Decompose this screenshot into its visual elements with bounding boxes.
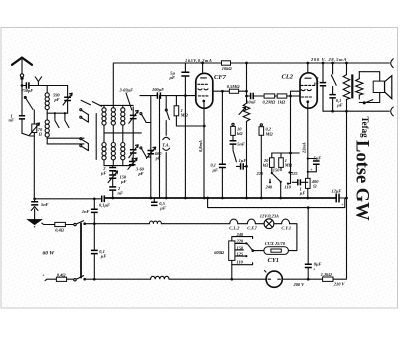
resistor 0.5M bbox=[227, 84, 247, 93]
svg-text:CY1: CY1 bbox=[268, 257, 280, 264]
svg-text:kΩ: kΩ bbox=[237, 131, 243, 136]
wire coil to filter lower bbox=[47, 143, 84, 145]
capacitor 0.1uF in rail bbox=[99, 196, 110, 208]
transformer core bbox=[351, 74, 353, 98]
svg-text:0,4Ω: 0,4Ω bbox=[55, 227, 64, 232]
switch mains bottom bbox=[74, 276, 86, 281]
svg-text:1,2kΩ: 1,2kΩ bbox=[321, 272, 333, 277]
node grid junction bbox=[184, 94, 187, 97]
capacitor 600pF variable bbox=[147, 147, 163, 161]
wire CL2 anode to bus bbox=[306, 62, 309, 72]
wire to CL2 grid bbox=[291, 91, 301, 96]
choke heater bbox=[149, 221, 229, 224]
tap 240 dropper bbox=[232, 232, 253, 241]
switch contacts left upper bbox=[80, 109, 89, 122]
capacitor 0.1uF mains bbox=[91, 249, 106, 281]
capacitor 1nF antenna bbox=[9, 114, 26, 134]
svg-text:nF: nF bbox=[118, 191, 123, 196]
svg-text:110: 110 bbox=[237, 260, 244, 265]
wire B+ top bus left bbox=[114, 62, 222, 64]
capacitor 10nF bbox=[246, 93, 264, 105]
resistor 1M grid leak bbox=[174, 96, 204, 126]
wire ground rail thin bbox=[35, 198, 101, 200]
svg-text:µF: µF bbox=[100, 254, 107, 259]
capacitor 5nF to ground bbox=[31, 199, 48, 207]
switch contact a bbox=[55, 113, 59, 127]
wire volume column bbox=[245, 62, 248, 104]
svg-text:1kΩ: 1kΩ bbox=[278, 100, 286, 105]
switch contacts left lower bbox=[80, 138, 89, 151]
svg-text:200 V: 200 V bbox=[293, 282, 306, 287]
svg-text:5nF: 5nF bbox=[237, 141, 245, 146]
switch link bar bbox=[80, 223, 82, 279]
node CL2 grid bbox=[289, 95, 292, 98]
svg-text:5nF: 5nF bbox=[41, 202, 49, 207]
tube CL2 bbox=[300, 73, 317, 108]
resistor 10k in bus bbox=[222, 61, 233, 71]
wire top coil box bbox=[47, 85, 67, 87]
capacitor 12uF bus bbox=[332, 188, 347, 207]
wire chassis bus thick bbox=[105, 197, 335, 199]
tap 220 dropper bbox=[235, 239, 248, 245]
svg-text:125: 125 bbox=[237, 252, 244, 257]
switch tone bbox=[233, 145, 236, 162]
switch tone right bbox=[331, 62, 336, 94]
svg-text:µF: µF bbox=[336, 103, 343, 108]
svg-text:CUX J5/70: CUX J5/70 bbox=[265, 241, 286, 246]
capacitor 5uF cathode bypass bbox=[307, 156, 322, 173]
svg-text:MΩ: MΩ bbox=[265, 131, 274, 136]
antenna lead-in loop bbox=[20, 74, 23, 86]
wire CF7 anode right bbox=[213, 90, 230, 92]
ground chassis symbol bbox=[27, 219, 42, 227]
svg-text:240: 240 bbox=[265, 184, 273, 189]
lamp dial 12V bbox=[260, 213, 282, 228]
capacitor 0.5uF below bus bbox=[151, 198, 166, 211]
node ground junction bbox=[33, 197, 36, 200]
switch mains selector blade bbox=[272, 173, 282, 198]
svg-text:8µF: 8µF bbox=[314, 261, 322, 266]
coil Fa1 bbox=[102, 105, 106, 132]
svg-text:CF7: CF7 bbox=[214, 74, 227, 81]
resistor 1k series bbox=[277, 94, 290, 105]
resistor 10k column bbox=[231, 123, 243, 136]
wire AVC vertical bbox=[150, 96, 152, 198]
wire dropper to mains bbox=[230, 265, 233, 281]
wire return rail bbox=[206, 197, 345, 209]
terminal hook lower bbox=[391, 107, 394, 116]
switch dropper blade bbox=[247, 243, 253, 250]
switch contacts top left bbox=[81, 100, 102, 106]
node antenna junction bbox=[21, 84, 24, 87]
capacitor 0.1uF anode bbox=[211, 91, 226, 198]
svg-text:C.L.2: C.L.2 bbox=[229, 226, 240, 231]
terminal hook top bbox=[391, 59, 394, 68]
band filter bottom rail bbox=[104, 165, 123, 167]
svg-text:3-69µF: 3-69µF bbox=[119, 88, 134, 93]
capacitor 590pF variable bbox=[53, 86, 72, 114]
resistor 0.2M bias column bbox=[259, 124, 273, 198]
svg-text:12V/0,23A: 12V/0,23A bbox=[260, 213, 279, 218]
svg-text:0,1µF: 0,1µF bbox=[99, 203, 110, 208]
wire grid CF7 bbox=[140, 95, 156, 97]
wire CL2 cathode bbox=[302, 102, 308, 179]
resistor 0.2M series bbox=[263, 94, 278, 105]
svg-text:C.F.7: C.F.7 bbox=[247, 226, 257, 231]
wire antenna to band switch bbox=[22, 133, 34, 136]
tap 110 bbox=[285, 153, 292, 190]
capacitor 1nF mains bbox=[82, 197, 98, 249]
svg-text:MΩ: MΩ bbox=[284, 162, 293, 167]
svg-text:T.A.: T.A. bbox=[162, 142, 169, 147]
wire CF7 anode top bbox=[201, 62, 204, 73]
svg-text:0,4Ω: 0,4Ω bbox=[57, 272, 66, 277]
svg-text:µF: µF bbox=[313, 81, 320, 86]
capacitor 1uF selector bbox=[292, 179, 308, 196]
switch filter lower bbox=[140, 147, 151, 157]
node anode junction bbox=[221, 90, 224, 93]
svg-text:10nF: 10nF bbox=[246, 100, 256, 105]
coil Fa2 bbox=[102, 133, 106, 166]
resistor 400ohm cathode bbox=[306, 178, 320, 198]
label 3-69uF bbox=[119, 88, 134, 111]
svg-text:100µF: 100µF bbox=[152, 87, 164, 92]
resistor 0.4ohm top bbox=[55, 222, 74, 232]
svg-text:Lotse GW: Lotse GW bbox=[352, 140, 372, 221]
earth fork symbol bbox=[35, 77, 41, 86]
capacitor 100pF grid bbox=[152, 87, 196, 99]
tap 110 dropper bbox=[232, 260, 253, 265]
svg-text:µF: µF bbox=[299, 191, 306, 196]
antenna bbox=[12, 58, 32, 74]
svg-text:22mA: 22mA bbox=[302, 142, 307, 154]
capacitor 150pF variable bbox=[108, 171, 127, 184]
terminal mains top bbox=[42, 223, 55, 224]
choke mains bbox=[151, 276, 267, 279]
heater CL2 bbox=[229, 219, 247, 230]
capacitor 8uF reservoir bbox=[305, 208, 322, 281]
tube CY1 rectifier bbox=[251, 241, 288, 264]
svg-text:220: 220 bbox=[256, 171, 264, 176]
resistor 70ohm variable bbox=[30, 110, 43, 199]
trimmer 3-69pF upper bbox=[129, 107, 138, 133]
transformer primary bbox=[343, 62, 350, 112]
capacitor 2uF tone top bbox=[313, 62, 326, 112]
resistor 600ohm dropper bbox=[214, 241, 235, 261]
svg-text:210 V: 210 V bbox=[333, 281, 346, 286]
wire node row y113 bbox=[47, 112, 67, 114]
svg-text:125: 125 bbox=[291, 171, 298, 176]
heater CF7 bbox=[247, 219, 264, 230]
capacitor 5uF screen bbox=[169, 63, 190, 96]
svg-text:165V,0,2mA: 165V,0,2mA bbox=[185, 58, 212, 63]
svg-text:µF: µF bbox=[159, 206, 166, 211]
svg-text:240: 240 bbox=[236, 232, 244, 237]
band filter top rail bbox=[100, 104, 133, 106]
trimmer 3-60pF bbox=[128, 158, 145, 176]
meter mains bbox=[265, 271, 309, 288]
coil Fb1 bbox=[111, 105, 115, 132]
coil Fb2 bbox=[111, 133, 115, 166]
band filter mid rail bbox=[104, 132, 141, 134]
tap 125 bbox=[288, 171, 298, 176]
wire grid network down bbox=[290, 96, 292, 153]
wire mains bottom rail bbox=[85, 278, 151, 280]
tap 240 bbox=[265, 179, 273, 189]
switch mains top bbox=[74, 221, 86, 226]
capacitor 750pF bbox=[22, 82, 48, 93]
svg-text:750pF: 750pF bbox=[22, 88, 34, 93]
potentiometer 0.5M volume bbox=[239, 103, 250, 198]
capacitor 2uF padder bbox=[100, 166, 116, 176]
wire CF7 cathode bbox=[198, 102, 204, 199]
wire second vertical bbox=[159, 96, 161, 198]
capacitor 2nF bbox=[109, 179, 123, 198]
wire heater rail bbox=[85, 223, 150, 225]
svg-text:Tefag: Tefag bbox=[360, 117, 370, 139]
svg-text:200 V. 28,5mA: 200 V. 28,5mA bbox=[310, 57, 347, 62]
svg-text:10kΩ: 10kΩ bbox=[222, 66, 233, 71]
coil L2 antenna bbox=[45, 113, 49, 144]
tube CF7 bbox=[196, 73, 213, 108]
svg-text:µF: µF bbox=[120, 179, 127, 184]
svg-text:µF: µF bbox=[212, 167, 219, 172]
node bus junctions bbox=[111, 197, 348, 200]
svg-text:0,5MΩ: 0,5MΩ bbox=[227, 84, 240, 89]
tap 220 bbox=[256, 167, 273, 175]
coil Fc1 bbox=[121, 105, 125, 132]
capacitor 1uF coupling bbox=[236, 158, 246, 170]
selector network top rail bbox=[272, 152, 299, 155]
svg-text:150: 150 bbox=[237, 245, 244, 250]
svg-text:µF: µF bbox=[100, 171, 107, 176]
trimmer lower bbox=[123, 133, 138, 166]
wire B+ top bus right bbox=[231, 62, 390, 64]
svg-text:kΩ: kΩ bbox=[263, 162, 269, 167]
svg-text:220: 220 bbox=[236, 239, 244, 244]
speaker bbox=[373, 76, 392, 99]
wire right bus down bbox=[346, 111, 348, 278]
capacitor 0.1uF tone bbox=[329, 95, 342, 112]
svg-text:0,2MΩ: 0,2MΩ bbox=[263, 100, 276, 105]
coil Fc2 bbox=[121, 133, 125, 166]
switch contact b bbox=[65, 113, 69, 127]
svg-text:1µF: 1µF bbox=[239, 158, 247, 163]
resistor 20k bbox=[263, 153, 274, 167]
wire coil to filter upper bbox=[47, 137, 84, 139]
svg-text:12µF: 12µF bbox=[332, 188, 342, 193]
svg-text:nF: nF bbox=[9, 118, 14, 123]
svg-text:110: 110 bbox=[285, 185, 292, 190]
tap 125 dropper bbox=[235, 252, 248, 258]
svg-text:150: 150 bbox=[273, 168, 280, 173]
svg-text:pF: pF bbox=[54, 97, 60, 102]
capacitor 5nF column bbox=[230, 135, 245, 146]
terminal mains bottom bbox=[42, 273, 56, 281]
tap 150 dropper bbox=[235, 245, 244, 250]
wire filter left link bbox=[95, 114, 97, 160]
svg-text:CL2: CL2 bbox=[282, 74, 294, 81]
svg-text:60 W: 60 W bbox=[43, 250, 56, 256]
wire antenna down bbox=[21, 86, 23, 116]
resistor 1M network bbox=[279, 153, 293, 171]
coil L1 antenna bbox=[45, 86, 49, 114]
svg-text:5µF: 5µF bbox=[314, 156, 322, 161]
switch filter upper bbox=[140, 113, 151, 123]
svg-text:0,8mA: 0,8mA bbox=[198, 140, 203, 152]
svg-text:C.Y.1: C.Y.1 bbox=[281, 226, 291, 231]
jack TA pickup bbox=[162, 96, 169, 198]
svg-text:600Ω: 600Ω bbox=[214, 250, 225, 255]
heater CY1 bbox=[281, 219, 297, 251]
transformer secondary bbox=[356, 72, 363, 99]
wire screen column to bus bbox=[184, 96, 186, 198]
switch band selector blade bbox=[24, 96, 33, 109]
svg-text:µF: µF bbox=[169, 75, 176, 80]
resistor 1.2k bbox=[308, 272, 346, 286]
svg-text:pF: pF bbox=[138, 171, 144, 176]
svg-text:MΩ: MΩ bbox=[180, 113, 189, 118]
node cathode junction bbox=[203, 125, 206, 128]
resistor 0.4ohm bottom bbox=[56, 272, 73, 281]
speaker wiring bbox=[359, 72, 379, 104]
svg-text:1nF: 1nF bbox=[82, 209, 90, 214]
wire output lower rail bbox=[323, 110, 389, 113]
ground arrow bbox=[31, 207, 38, 220]
wire bus to band filter bbox=[112, 63, 114, 105]
